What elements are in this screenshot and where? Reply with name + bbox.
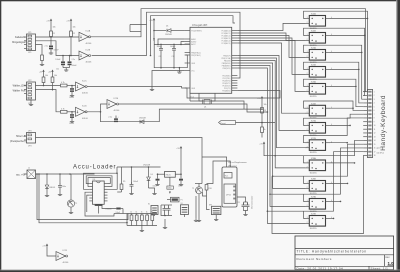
svg-text:2: 2 [307, 146, 308, 148]
svg-text:1k: 1k [141, 211, 143, 213]
svg-text:18: 18 [374, 155, 376, 157]
resistor R5 [52, 74, 54, 77]
svg-text:1: 1 [307, 182, 308, 184]
wire third nested loop [151, 16, 236, 56]
svg-text:1: 1 [374, 91, 375, 93]
svg-text:Document Numbers: Document Numbers [297, 257, 332, 261]
optocoupler IC9A [305, 196, 332, 213]
buzzer box SP2 [209, 204, 221, 220]
resistor R6 series [61, 84, 68, 87]
svg-text:1N4001: 1N4001 [49, 187, 55, 189]
svg-text:100nF: 100nF [178, 186, 183, 188]
svg-text:1N4148: 1N4148 [143, 165, 151, 167]
transistor T2 [198, 184, 200, 188]
capacitor C18 tantal [157, 174, 159, 178]
svg-text:1.0: 1.0 [388, 261, 395, 266]
svg-text:11: 11 [374, 129, 376, 131]
svg-text:100nF: 100nF [133, 181, 139, 183]
svg-text:1: 1 [307, 85, 308, 87]
supply +5V P2 [70, 20, 72, 23]
wire IC2E output to MCU PD2 [119, 104, 268, 112]
wire charge top rail [117, 166, 161, 168]
wire charger loop 2 [88, 178, 110, 187]
svg-text:REV:: REV: [385, 257, 390, 259]
svg-text:P1: P1 [181, 200, 183, 202]
svg-text:2: 2 [374, 95, 375, 97]
svg-text:PB5(SCK): PB5(SCK) [223, 68, 231, 70]
svg-text:IC2F: IC2F [63, 250, 68, 252]
charger IC3 box [89, 179, 111, 211]
svg-text:4.7k: 4.7k [61, 108, 65, 110]
schmitt inverter IC2D [76, 107, 86, 116]
svg-text:PD6(AIN0): PD6(AIN0) [222, 89, 231, 92]
svg-text:1: 1 [307, 124, 308, 126]
wire AVCC rail [154, 39, 187, 68]
wire +5V to box loop [264, 146, 275, 156]
supply +5V phone [263, 143, 265, 146]
svg-text:IC7A: IC7A [311, 120, 316, 123]
svg-text:(Freisprechen): (Freisprechen) [10, 140, 26, 143]
svg-text:5: 5 [374, 106, 375, 108]
svg-text:2.2u: 2.2u [108, 117, 112, 119]
supply +5V accu output [180, 147, 182, 150]
svg-text:100nF: 100nF [157, 46, 163, 48]
wire JP1 pin2 to IC2B input [36, 41, 80, 56]
svg-text:40106: 40106 [114, 110, 121, 112]
microcontroller IC1 ATmega8 box [185, 24, 238, 94]
svg-text:IC8A: IC8A [311, 157, 316, 160]
svg-text:10: 10 [374, 125, 376, 127]
svg-text:12: 12 [374, 133, 376, 135]
svg-text:1k: 1k [146, 211, 148, 213]
svg-text:13: 13 [374, 136, 376, 138]
diode D1 reset [154, 30, 166, 32]
optocoupler IC5B [305, 65, 332, 81]
ground caps loop [178, 68, 180, 71]
scan border left [0, 0, 1, 272]
svg-text:1: 1 [307, 200, 308, 202]
wire IC2A output over MCU to keyboard [91, 9, 366, 92]
wire transistor to R10 [207, 194, 210, 210]
poti R16 [171, 197, 180, 202]
switch box S1 [181, 203, 189, 217]
svg-text:Klingelsignal: Klingelsignal [12, 41, 26, 44]
svg-text:IC2E: IC2E [114, 98, 119, 100]
scan border bottom [0, 269, 400, 272]
svg-text:15: 15 [374, 144, 376, 146]
connector JP11 handset box [222, 167, 237, 207]
svg-text:S1: S1 [181, 203, 183, 205]
svg-text:C6: C6 [159, 56, 161, 58]
optocoupler IC5A [305, 47, 332, 64]
svg-text:2: 2 [307, 56, 308, 58]
capacitor C21 pair [237, 197, 246, 202]
svg-text:C10: C10 [172, 56, 175, 58]
svg-text:red (Pur): red (Pur) [377, 152, 385, 155]
svg-text:IC7B: IC7B [311, 138, 316, 140]
connector J1 power jack [27, 170, 36, 179]
svg-text:10k: 10k [53, 27, 56, 29]
optocoupler IC8B [305, 179, 332, 195]
svg-text:JP11: JP11 [226, 195, 232, 197]
svg-text:1k: 1k [130, 211, 132, 213]
svg-text:R2: R2 [73, 33, 75, 35]
net flag Reset [219, 121, 236, 125]
svg-text:TITLE: Handywählscheibentelef: TITLE: Handywählscheibentelefon [297, 249, 367, 253]
svg-text:1k: 1k [264, 129, 266, 131]
wire JP2 pin2 to R7 [36, 90, 61, 112]
capacitor C1 on ring line [50, 37, 52, 45]
wire power down left [39, 174, 127, 223]
svg-text:1k: 1k [136, 211, 138, 213]
svg-text:K1: K1 [148, 204, 150, 206]
svg-text:2: 2 [307, 73, 308, 75]
svg-text:IC4A: IC4A [311, 13, 316, 16]
svg-text:1: 1 [307, 68, 308, 70]
svg-text:PB7(XTAL2): PB7(XTAL2) [191, 54, 201, 57]
connector JP3 [24, 130, 36, 147]
wire RC pulse network [101, 109, 263, 122]
supply +5V VCC rail [153, 19, 155, 22]
capacitor C16 [59, 174, 61, 184]
svg-text:14: 14 [374, 140, 376, 142]
svg-text:C11: C11 [56, 69, 59, 71]
wire JP2 pin1 to R6 [36, 85, 61, 87]
wire JP11 top stub 2 [207, 161, 231, 184]
wire bottom rail [114, 213, 127, 215]
svg-text:40106: 40106 [86, 43, 93, 45]
schmitt inverter IC2C [76, 82, 86, 91]
svg-text:1: 1 [307, 217, 308, 219]
svg-text:2: 2 [307, 222, 308, 224]
svg-text:PC5(ADC5): PC5(ADC5) [221, 42, 230, 45]
diode D2 [140, 120, 144, 124]
wire JP1 pin1 to IC2A input [36, 36, 80, 38]
capacitor C17 [131, 167, 133, 184]
svg-text:IC9B: IC9B [311, 214, 316, 216]
svg-text:R9: R9 [123, 181, 125, 183]
junction IC2B input net [70, 55, 72, 57]
wire MCU GND [152, 71, 185, 89]
svg-text:4.7k: 4.7k [61, 82, 65, 84]
svg-text:100nF: 100nF [69, 123, 75, 125]
svg-text:Q1: Q1 [204, 107, 206, 109]
svg-text:R1: R1 [53, 33, 55, 35]
net flag GND below regulator [169, 177, 171, 186]
optocoupler IC4A [305, 13, 332, 30]
wire IC2C output to MCU [87, 87, 185, 89]
svg-text:T2: T2 [192, 188, 194, 190]
svg-text:100nF: 100nF [72, 65, 78, 67]
connector JP2 [24, 80, 36, 105]
wire AVCC net [181, 42, 185, 45]
optocoupler IC7B [305, 138, 332, 154]
wire IC2D output to IC2E input [87, 104, 107, 112]
connector JP1 [24, 32, 36, 54]
svg-text:D4: D4 [151, 174, 153, 176]
svg-text:T1: T1 [75, 203, 77, 205]
transistor Q2 [67, 200, 74, 207]
svg-text:2: 2 [307, 112, 308, 114]
svg-text:17: 17 [374, 151, 376, 153]
wire bus MCU to optocouplers [237, 23, 305, 223]
schmitt inverter IC2B [79, 51, 89, 60]
crystal Q1 [204, 100, 210, 105]
svg-text:1: 1 [307, 141, 308, 143]
supply +5V reset pullup [261, 97, 263, 100]
supply +5V P1 [50, 20, 52, 23]
svg-text:Accu-Loader: Accu-Loader [73, 165, 116, 171]
scan border right [396, 0, 397, 272]
resistor R8 [261, 127, 264, 133]
svg-text:AVCC: AVCC [191, 43, 196, 46]
supply +5V P3 [43, 71, 45, 74]
svg-text:IC2C: IC2C [82, 80, 87, 82]
svg-text:PC6(/RESET): PC6(/RESET) [191, 30, 202, 32]
wire IC2B output over MCU to PD1 [92, 12, 240, 78]
resistor R10 [205, 185, 208, 191]
supply +5V IC2F [46, 245, 48, 248]
svg-text:1N4148: 1N4148 [139, 118, 146, 120]
svg-text:ATmega8-16PI: ATmega8-16PI [192, 24, 208, 27]
svg-text:2: 2 [307, 187, 308, 189]
wire corner cluster left of MCU [130, 24, 147, 26]
wire under MCU wrap 2 [199, 93, 203, 101]
svg-text:Wähler_EIN: Wähler_EIN [13, 85, 26, 88]
svg-text:40106: 40106 [63, 262, 70, 264]
svg-text:4: 4 [374, 103, 375, 105]
title block frame [295, 236, 394, 270]
svg-text:40106: 40106 [82, 118, 89, 120]
svg-text:IC2D: IC2D [82, 106, 87, 108]
scan border top [0, 0, 400, 1]
svg-text:C21: C21 [237, 202, 240, 204]
wire JP1 pin3 resistor to ground [36, 45, 43, 55]
svg-text:10k: 10k [54, 75, 57, 77]
svg-text:78L05: 78L05 [165, 175, 170, 177]
svg-text:2: 2 [307, 205, 308, 207]
resistor row R11-R15 [127, 211, 157, 231]
schmitt inverter IC2A [79, 32, 89, 41]
svg-text:100nF: 100nF [55, 59, 61, 61]
resistor R7 series [61, 110, 68, 113]
wire red return around bottom [272, 155, 364, 233]
svg-text:100u: 100u [62, 186, 66, 188]
svg-text:100nF: 100nF [54, 50, 60, 52]
capacitor C14 at IC2D input [71, 112, 73, 114]
capacitor C20 pair [161, 205, 172, 229]
resistor R9 [121, 167, 123, 184]
svg-text:Hörer LS: Hörer LS [16, 135, 26, 138]
capacitor C6 100nF [160, 44, 162, 48]
svg-text:IC5B: IC5B [311, 65, 316, 67]
capacitor C19 tantal [180, 174, 182, 178]
svg-text:1N4148: 1N4148 [165, 34, 172, 36]
svg-text:IC8B: IC8B [311, 179, 316, 181]
svg-text:IC6A: IC6A [311, 81, 316, 84]
svg-text:100nF: 100nF [69, 97, 75, 99]
svg-text:1: 1 [307, 107, 308, 109]
ground C11 C12 [63, 67, 70, 69]
svg-text:9: 9 [374, 121, 375, 123]
svg-text:ILD255: ILD255 [310, 172, 318, 174]
svg-text:10k: 10k [45, 75, 48, 77]
svg-text:1: 1 [307, 162, 308, 164]
schmitt inverter IC2F [56, 252, 66, 261]
supply +5V P4 [52, 71, 54, 74]
wire charger loop 3 [84, 173, 118, 189]
svg-text:2: 2 [307, 90, 308, 92]
optocoupler IC8A [305, 157, 332, 174]
capacitor C13 at IC2C input [71, 86, 73, 89]
wire charger loop 1 [86, 176, 112, 187]
wire AREF net [158, 39, 185, 44]
wire under MCU wrap 1 [185, 88, 280, 98]
regulator IC5 78L05 [165, 171, 176, 177]
junction JP1 pin1 net [50, 36, 52, 38]
svg-text:6: 6 [374, 110, 375, 112]
wire loops optocouplers to keyboard connector [267, 11, 369, 219]
resistor R1 pullup [50, 23, 52, 31]
wire charger bottom [98, 206, 100, 214]
ground below JP2 [30, 100, 32, 103]
capacitor C15 polarized [114, 118, 118, 120]
svg-text:7: 7 [374, 114, 375, 116]
optocoupler IC7A [305, 120, 332, 137]
svg-text:IC2B: IC2B [86, 49, 91, 51]
diode D4 [148, 167, 150, 177]
svg-text:8: 8 [374, 118, 375, 120]
svg-text:100nF: 100nF [170, 46, 176, 48]
svg-text:D1: D1 [166, 26, 168, 28]
svg-text:J1: J1 [28, 168, 30, 170]
wire JP11 top stub 1 [202, 157, 227, 167]
svg-text:ILD255: ILD255 [310, 96, 318, 98]
svg-text:ILD255: ILD255 [310, 152, 318, 154]
optocoupler IC6A [305, 81, 332, 98]
svg-text:2: 2 [307, 39, 308, 41]
svg-text:Vibrationsmotor: Vibrationsmotor [251, 195, 254, 209]
optocoupler IC4B [305, 31, 332, 47]
resistor R4 [43, 74, 45, 77]
svg-text:Handy-Keyboard: Handy-Keyboard [380, 95, 387, 151]
svg-text:ILD255: ILD255 [310, 228, 318, 230]
svg-text:2: 2 [307, 167, 308, 169]
capacitor C23 tantal [116, 208, 120, 210]
ground S1 [195, 196, 197, 219]
svg-text:10k: 10k [264, 104, 267, 106]
svg-text:40106: 40106 [82, 93, 89, 95]
wire charger left drops [85, 192, 114, 216]
svg-text:1: 1 [307, 34, 308, 36]
capacitor C11 block [62, 56, 64, 62]
wire power rail [36, 173, 95, 175]
svg-text:IC9A: IC9A [311, 196, 316, 199]
svg-text:10k: 10k [73, 27, 76, 29]
capacitor C12 block [69, 56, 71, 62]
svg-text:IC4B: IC4B [311, 31, 316, 33]
svg-text:IC6B: IC6B [311, 104, 316, 106]
svg-text:1: 1 [307, 17, 308, 19]
svg-text:Reset: Reset [221, 122, 227, 125]
wire JP3 to phone section [36, 138, 203, 158]
svg-text:IC2A: IC2A [86, 30, 91, 33]
svg-text:3: 3 [374, 99, 375, 101]
svg-text:R10: R10 [209, 188, 212, 190]
resistor R2 pullup [70, 23, 72, 31]
connector SV1 Handy-Keyboard [363, 90, 375, 158]
svg-text:40106: 40106 [86, 62, 93, 64]
svg-text:SP1: SP1 [209, 204, 212, 206]
optocoupler IC6B [305, 104, 332, 120]
schmitt inverter IC2E [107, 100, 117, 109]
svg-text:JP4 as Klingelsummer: JP4 as Klingelsummer [228, 161, 247, 164]
optocoupler IC9B [305, 214, 332, 230]
svg-text:acc. +6V: acc. +6V [16, 174, 26, 177]
svg-text:Kabelsch.: Kabelsch. [15, 36, 26, 39]
svg-text:16: 16 [374, 148, 376, 150]
svg-text:IC5A: IC5A [311, 47, 316, 50]
svg-text:R3: R3 [264, 110, 266, 112]
svg-text:Wähler Puls: Wähler Puls [13, 90, 27, 93]
svg-text:IC4: IC4 [93, 179, 96, 181]
wire to IC2F input [47, 248, 56, 256]
resistor R3 10k [261, 101, 263, 108]
svg-text:2: 2 [307, 22, 308, 24]
svg-text:2: 2 [307, 129, 308, 131]
wire Reset net [236, 122, 276, 124]
svg-text:100nF: 100nF [153, 186, 158, 188]
capacitor C10 100nF [173, 44, 175, 48]
svg-text:1: 1 [307, 51, 308, 53]
diode D3 [46, 174, 48, 185]
relay box K1 [148, 204, 158, 217]
svg-text:2.2u: 2.2u [72, 59, 76, 61]
svg-text:2.2u: 2.2u [45, 46, 49, 48]
